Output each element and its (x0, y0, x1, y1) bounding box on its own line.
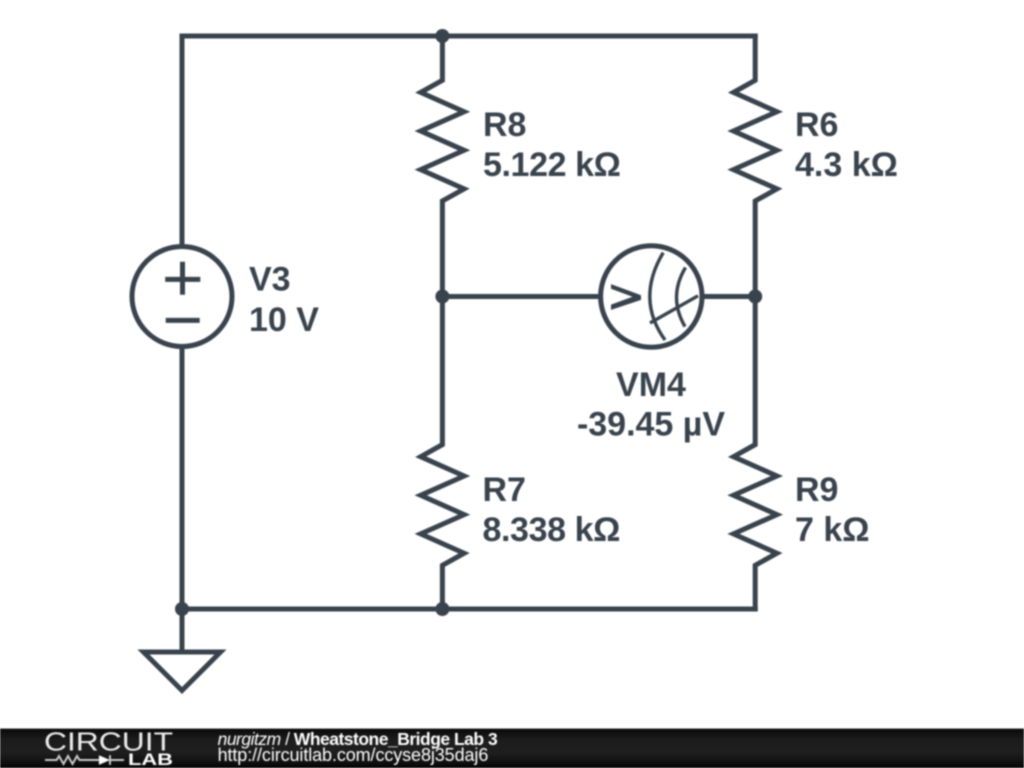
resistor R7 (421, 297, 464, 610)
V3 minus sign (166, 318, 200, 323)
svg-text:7 kΩ: 7 kΩ (795, 511, 870, 549)
wire left vertical (bottom) (180, 347, 185, 612)
svg-text:5.122 kΩ: 5.122 kΩ (483, 146, 621, 184)
svg-text:R6: R6 (795, 106, 838, 144)
V3 plus sign (165, 262, 200, 295)
wire middle right (702, 294, 755, 299)
svg-text:R7: R7 (483, 471, 526, 509)
node middle right (748, 290, 762, 304)
wire bottom horizontal (180, 607, 758, 612)
resistor R9 (734, 297, 777, 612)
footer bar (0, 729, 1024, 768)
resistor R8 (421, 36, 464, 297)
logo resistor-diode glyph (45, 755, 124, 765)
svg-text:R9: R9 (795, 471, 838, 509)
voltmeter VM4 circle (601, 246, 702, 347)
wire ground stem (180, 609, 185, 652)
voltmeter needle (650, 296, 698, 323)
voltage source V3 circle (132, 247, 232, 347)
node bottom middle (435, 602, 449, 616)
svg-text:4.3 kΩ: 4.3 kΩ (795, 146, 898, 184)
svg-text:10 V: 10 V (249, 301, 319, 339)
svg-text:V3: V3 (249, 261, 291, 299)
node top (R8/top wire) (435, 29, 449, 43)
svg-text:VM4: VM4 (616, 366, 686, 404)
svg-text:R8: R8 (483, 106, 526, 144)
resistor R6 (734, 34, 777, 297)
voltmeter scale arc 2 (677, 268, 686, 327)
ground symbol (144, 652, 221, 691)
svg-text:http://circuitlab.com/ccyse8j3: http://circuitlab.com/ccyse8j35daj6 (218, 745, 489, 765)
node bottom left (175, 602, 189, 616)
svg-text:LAB: LAB (128, 750, 173, 768)
svg-text:8.338 kΩ: 8.338 kΩ (483, 511, 621, 549)
node middle left (435, 290, 449, 304)
voltmeter scale arc 1 (650, 253, 665, 340)
wire left vertical (top) (180, 34, 185, 247)
voltmeter chevron (611, 284, 641, 310)
wire top horizontal (180, 34, 758, 39)
wire middle left (bridge output) (442, 294, 600, 299)
svg-text:-39.45 µV: -39.45 µV (577, 406, 725, 444)
